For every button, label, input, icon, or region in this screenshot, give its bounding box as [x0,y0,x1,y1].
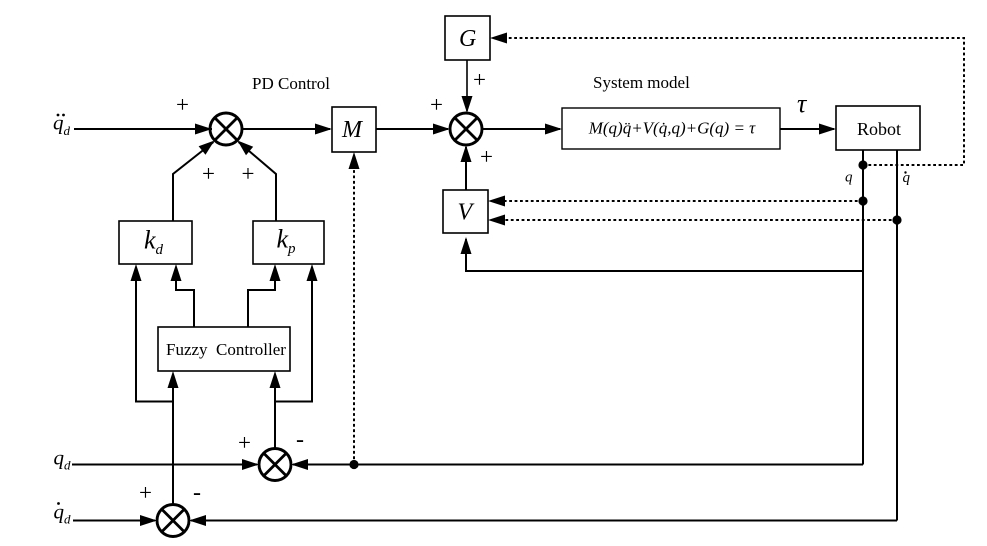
block k_d [119,221,192,264]
block V [443,190,488,233]
wire: q_dot output vertical from Robot down [896,150,898,521]
wire: system model to Robot with tau label [780,128,834,130]
wire: q_dd input line [74,128,212,130]
wire: Fuzzy Controller top-left to k_d bottom [176,268,194,327]
svg-text:q: q [845,170,853,186]
wire: q_d input line [72,464,257,466]
svg-text:Robot: Robot [857,119,901,139]
dashed wire: q_dot to V lower input [492,219,897,221]
node label q_dot [903,170,911,186]
summing junction S1 [210,113,242,145]
junction dot on q_d feedback line [349,460,358,469]
wire: branch from de line left to k_d bottom [136,268,173,402]
wire: Fuzzy Controller top-right to k_p bottom [248,268,275,327]
svg-text:+: + [473,67,486,92]
wire: G down to S2 with plus [466,60,468,111]
svg-text:+: + [139,480,152,505]
svg-text:+: + [238,430,251,455]
svg-text:System model: System model [593,73,690,92]
block Fuzzy Controller [158,327,290,371]
wire: S1 to M [242,128,330,130]
svg-text:Fuzzy Controller: Fuzzy Controller [166,340,286,359]
svg-text:M: M [341,117,364,143]
summing junction S3 (position error) [259,449,291,481]
svg-text:-: - [193,480,201,506]
junction dot on q line for V upper dashed input [858,196,867,205]
svg-text:+: + [176,92,189,117]
wire: V up to S2 with plus [465,147,467,190]
svg-text:+: + [242,161,255,186]
wire: solid feedback from q line to V bottom [466,239,863,271]
junction dot on q line for outer dashed loop [858,160,867,169]
block M [332,107,376,152]
svg-text:+: + [202,161,215,186]
node label q_dd (desired acceleration) [53,111,71,139]
svg-text:+: + [480,144,493,169]
dashed wire: from q_d feedback node up to M bottom [353,156,355,465]
wire: S2 to system model box [482,128,560,130]
wire: q output vertical from Robot down [862,150,864,465]
dashed wire: q to V upper input [492,200,863,202]
wire: error e from S3 up to Fuzzy Controller bottom-right [274,375,276,448]
block Robot [836,106,920,150]
wire: branch from e line right to k_p bottom [275,268,312,402]
wire: M to S2 [376,128,448,130]
wire: k_p output to S1 (diagonal) [239,142,277,221]
block k_p [253,221,324,264]
block G [445,16,490,60]
summing junction S4 (velocity error) [157,505,189,537]
wire: q feedback into S3 from right [293,464,863,466]
block System model equation [562,108,780,149]
summing junction S2 [450,113,482,145]
wire: q_dot feedback into S4 from right [191,520,897,522]
wire: k_d output to S1 (diagonal) [173,142,214,221]
node label q_dot_d [54,500,72,527]
dashed wire: outer feedback loop to G [494,38,964,165]
node label q_d [54,446,72,473]
svg-text:V: V [458,200,475,226]
svg-text:PD Control: PD Control [252,74,330,93]
svg-text:M(q)q̈+V(q̇,q)+G(q) = τ: M(q)q̈+V(q̇,q)+G(q) = τ [588,119,756,138]
svg-text:G: G [459,26,476,52]
junction dot on q_dot line for V lower dashed input [892,215,901,224]
wire: q_ddot input line [73,520,155,522]
svg-text:-: - [296,427,304,453]
svg-text:+: + [430,92,443,117]
wire: error de from S4 up to Fuzzy Controller bottom-left [172,375,174,504]
